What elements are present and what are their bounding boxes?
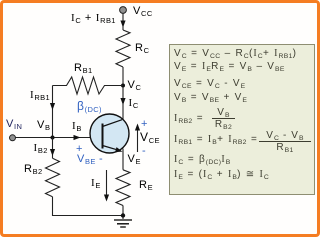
equation 2	[174, 62, 285, 72]
equation 1	[174, 49, 297, 59]
ground	[114, 220, 132, 227]
label RC	[135, 43, 149, 54]
equation 5 fraction VB over RB2	[212, 107, 235, 130]
terminal VIN	[10, 135, 16, 141]
wire RC to collector	[122, 67, 124, 120]
label RB2	[24, 164, 43, 175]
label IC + IRB1	[71, 13, 116, 24]
current arrow IRB1	[50, 103, 55, 110]
resistor RB1	[53, 77, 124, 94]
VCC terminal	[120, 7, 127, 14]
current arrow IC+IRB1	[120, 21, 125, 28]
label IC	[129, 98, 139, 109]
label IE	[91, 178, 101, 189]
equation 6 fraction (VC-VB) over RB1	[259, 130, 311, 153]
label IB	[72, 121, 82, 132]
wire RB2 to ground rail	[53, 197, 124, 216]
label plus VBE	[76, 144, 83, 155]
resistor RE	[116, 170, 130, 206]
current arrow IB	[74, 135, 81, 140]
label minus VBE	[99, 154, 103, 165]
wire RB1 to node VB	[52, 86, 54, 138]
label IB2	[34, 143, 48, 154]
wire node VB to RB2	[52, 138, 54, 159]
equation 8	[174, 170, 269, 180]
voltage arrow VCE	[135, 124, 140, 153]
current arrow IB2	[50, 149, 55, 156]
equation box	[169, 44, 315, 195]
equation 3	[174, 79, 245, 89]
label IRB1	[30, 90, 50, 101]
label plus VCE	[141, 119, 148, 130]
node VC	[121, 84, 125, 88]
label VC	[128, 80, 142, 91]
resistor RC	[116, 30, 130, 67]
label VB	[37, 120, 50, 131]
equation 5	[174, 114, 204, 124]
label VIN	[6, 119, 22, 130]
ground junction node	[121, 213, 125, 217]
wire VIN to base	[16, 137, 103, 139]
label minus VCE	[142, 146, 146, 157]
label VBE	[77, 154, 96, 165]
label RE	[139, 180, 153, 191]
equation 7	[174, 155, 231, 165]
wire RE to ground	[122, 206, 124, 220]
resistor RB2	[46, 158, 60, 196]
label beta(DC)	[77, 100, 102, 112]
label VE	[128, 154, 141, 165]
current arrow IC	[120, 98, 125, 105]
label VCE	[140, 131, 160, 143]
node VB	[51, 136, 55, 140]
wire VCC to RC	[122, 14, 124, 31]
current arrow IE	[104, 170, 109, 202]
label RB1	[74, 63, 93, 74]
label VCC	[133, 6, 153, 17]
equation 4	[174, 93, 247, 103]
equation 6	[174, 135, 258, 145]
transistor Q1	[90, 114, 129, 153]
wire emitter to RE	[122, 149, 124, 170]
